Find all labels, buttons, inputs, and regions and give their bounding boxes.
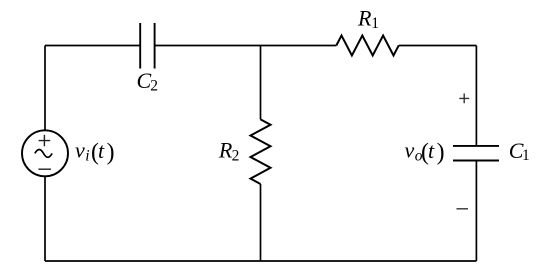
svg-text:): ) (437, 139, 445, 165)
voltage source sine mark (35, 150, 52, 158)
wire middle branch upper (top node to R2) (260, 46, 262, 120)
wire bottom (full width) (45, 260, 476, 262)
label vo(t) (405, 138, 445, 166)
svg-text:C: C (137, 68, 152, 93)
wire top-middle (C2 right plate to R1, includes node at middle branch) (155, 45, 336, 47)
wire top-left (source top to C2 left plate) (45, 46, 140, 131)
svg-text:v: v (75, 138, 85, 163)
wire top-right (R1 to top-right corner) (399, 45, 477, 47)
resistor R1 (336, 36, 398, 56)
voltage source plus mark (39, 135, 51, 146)
svg-text:1: 1 (371, 15, 379, 32)
svg-text:2: 2 (150, 77, 158, 94)
svg-text:2: 2 (232, 147, 240, 164)
svg-text:1: 1 (522, 147, 530, 164)
label C2 (137, 68, 159, 94)
wire right lower (C1 bottom plate to bottom-right corner) (475, 161, 477, 261)
svg-text:t: t (428, 138, 435, 163)
svg-text:v: v (405, 138, 415, 163)
svg-text:R: R (357, 5, 372, 30)
capacitor C1 (453, 146, 499, 161)
label R2 (218, 138, 239, 165)
wire right upper (corner down to C1 top plate) (475, 46, 477, 146)
voltage source minus mark (38, 168, 51, 170)
wire left lower (source bottom to bottom-left corner) (44, 176, 46, 261)
svg-text:i: i (85, 148, 89, 165)
label C1 (509, 138, 530, 164)
resistor R2 (251, 119, 271, 184)
voltage source VS circle (22, 130, 68, 176)
polarity + (output) (459, 94, 469, 104)
wire middle branch lower (R2 to bottom node) (260, 184, 262, 261)
label R1 (357, 5, 379, 32)
label vi(t) (75, 138, 115, 166)
capacitor C2 (140, 23, 154, 69)
svg-text:): ) (107, 139, 115, 165)
polarity - (output) (457, 208, 469, 210)
svg-text:t: t (98, 138, 105, 163)
